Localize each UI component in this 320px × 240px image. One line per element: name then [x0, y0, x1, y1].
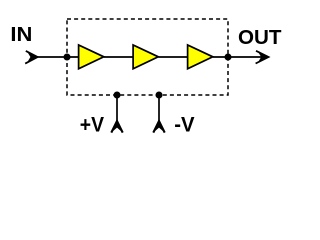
- -V terminal arrowhead: [153, 121, 164, 133]
- node -V junction: [156, 92, 163, 99]
- svg-text:IN: IN: [10, 24, 32, 46]
- input arrowhead: [25, 51, 37, 64]
- svg-text:-V: -V: [174, 114, 194, 137]
- wire A2 to A3: [158, 56, 188, 58]
- wire +V stub: [116, 95, 118, 124]
- input arrowhead fill: [27, 52, 38, 62]
- output arrowhead fill: [258, 52, 269, 62]
- node input junction: [64, 54, 71, 61]
- +V terminal arrowhead: [111, 121, 122, 133]
- +V terminal arrowhead fill: [111, 121, 122, 133]
- buffer A2: [133, 45, 158, 69]
- buffer A3: [188, 45, 213, 69]
- wire A3 to output: [213, 56, 267, 58]
- wire input to buffer A1: [36, 56, 79, 58]
- dashed enclosure box: [67, 19, 228, 95]
- node +V junction: [114, 92, 121, 99]
- node output junction: [225, 54, 232, 61]
- svg-text:OUT: OUT: [238, 27, 282, 49]
- buffer A1: [79, 45, 104, 69]
- -V terminal arrowhead fill: [153, 121, 164, 133]
- output arrowhead: [256, 51, 269, 64]
- wire -V stub: [158, 95, 160, 124]
- svg-text:+V: +V: [80, 114, 104, 137]
- wire A1 to A2: [104, 56, 134, 58]
